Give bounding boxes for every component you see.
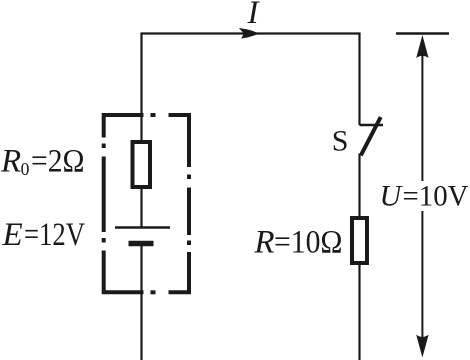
- svg-text:U: U: [380, 180, 404, 213]
- battery E short plate: [129, 241, 154, 247]
- svg-text:=2Ω: =2Ω: [31, 144, 85, 180]
- battery box bottom dot: [151, 290, 156, 294]
- switch S fixed contact bar: [360, 124, 384, 126]
- wire: switch to resistor R: [358, 154, 360, 218]
- battery box right dot 1: [187, 175, 191, 180]
- battery box left dot 2: [102, 238, 106, 243]
- voltage arrow shaft lower: [421, 211, 423, 340]
- wire: battery to bottom edge: [140, 244, 142, 360]
- battery box left middle dash: [102, 157, 106, 233]
- svg-text:=12V: =12V: [24, 217, 85, 253]
- wire: resistor R to bottom edge: [358, 264, 360, 360]
- label U=10V: [380, 180, 469, 213]
- battery box right dot 2: [187, 241, 191, 246]
- switch S blade: [361, 117, 381, 155]
- battery box top dot: [151, 113, 156, 117]
- svg-text:0: 0: [21, 159, 30, 179]
- svg-text:S: S: [332, 125, 349, 158]
- svg-text:=10V: =10V: [403, 180, 469, 213]
- battery box left dot 1: [102, 144, 106, 149]
- voltage arrowhead up: [416, 35, 428, 58]
- label R0=2 ohm: [0, 144, 85, 180]
- battery box bottom-right corner (dash-dot): [169, 252, 190, 292]
- svg-text:=10Ω: =10Ω: [274, 225, 343, 261]
- battery box right middle dash: [187, 188, 191, 236]
- voltage reference bar at node B: [396, 32, 449, 34]
- svg-text:E: E: [2, 217, 23, 253]
- label R=10 ohm: [253, 225, 342, 261]
- resistor R body: [352, 218, 367, 263]
- wire top: node A to node B: [142, 34, 360, 142]
- label E=12V: [2, 217, 86, 253]
- battery box top-right corner (dash-dot): [169, 115, 190, 167]
- svg-text:R: R: [253, 225, 274, 261]
- battery box top-left corner (dash-dot): [104, 115, 144, 138]
- battery E long plate: [115, 226, 170, 229]
- battery box bottom-left corner (dash-dot): [104, 251, 144, 293]
- wire: R0 to battery plate: [140, 188, 142, 227]
- svg-text:R: R: [0, 144, 21, 180]
- voltage arrowhead down: [416, 335, 428, 358]
- resistor R0 body: [133, 142, 151, 187]
- current arrow I: [239, 28, 259, 38]
- svg-text:I: I: [247, 0, 261, 31]
- voltage arrow shaft upper: [421, 52, 423, 181]
